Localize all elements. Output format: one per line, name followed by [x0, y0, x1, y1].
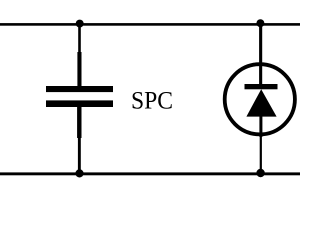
svg-text:SPC: SPC: [131, 86, 173, 115]
wire: diode branch, segment through circle below triangle: [259, 116, 262, 137]
wire: diode branch, lower segment to bottom rail: [260, 136, 262, 174]
wire: capacitor top lead (thick stub): [77, 52, 81, 87]
node: junction dot, bottom of diode branch: [256, 169, 264, 177]
node: junction dot, bottom of capacitor branch: [75, 169, 83, 177]
capacitor SPC: bottom plate: [46, 100, 113, 107]
node: junction dot, top of diode branch: [256, 19, 264, 27]
diode (circled device): envelope circle: [225, 64, 295, 134]
wire: capacitor bottom lead (thick stub): [77, 107, 81, 139]
diode: cathode bar: [245, 84, 278, 89]
wire: capacitor branch, top thin segment: [78, 24, 81, 53]
wire: bottom rail: [0, 172, 300, 175]
diode: anode triangle: [246, 89, 276, 116]
node: junction dot, top of capacitor branch: [76, 20, 84, 28]
wire: diode branch, upper segment into circle: [259, 24, 262, 84]
capacitor SPC: top plate: [46, 86, 113, 92]
wire: top rail: [0, 23, 300, 26]
wire: capacitor branch, bottom thin segment: [78, 138, 81, 174]
